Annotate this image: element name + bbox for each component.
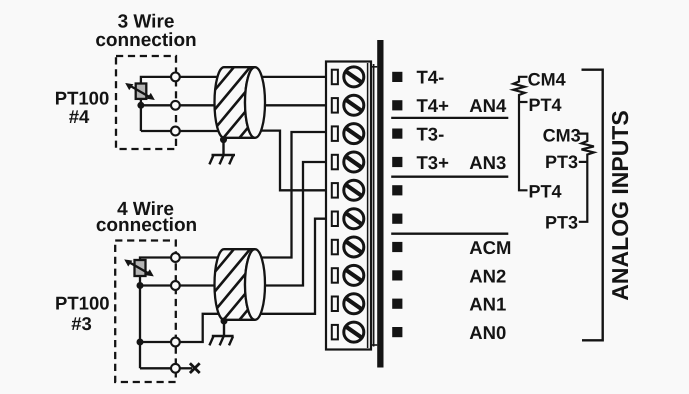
terminal circle 2 (box #3) bbox=[171, 281, 180, 290]
node shield drain dot cable 2 bbox=[221, 318, 228, 325]
svg-text:PT3: PT3 bbox=[545, 212, 578, 232]
wire circle3 to shield cable 1 bbox=[180, 130, 224, 132]
svg-text:T3-: T3- bbox=[417, 123, 445, 144]
pin square row7 bbox=[392, 242, 402, 252]
wire cable2 out to terminal row4 T3+ bbox=[253, 162, 327, 286]
svg-text:T4-: T4- bbox=[417, 67, 445, 88]
dashed sensor box PT100 #4 bbox=[116, 56, 176, 149]
mounting tick top bbox=[371, 66, 377, 68]
wire junction to circle 2 bbox=[141, 104, 171, 106]
terminal circle 3 (box #3) bbox=[171, 338, 180, 347]
node shield drain dot cable 1 bbox=[220, 136, 227, 143]
arrow through RTD #3 bbox=[128, 261, 151, 274]
svg-text:PT4: PT4 bbox=[529, 182, 562, 202]
wire bottom to circle 4 bbox=[140, 367, 170, 369]
bracket + resistor RTD4 equivalent bbox=[513, 77, 527, 191]
shielded cable 1 body bbox=[169, 62, 319, 145]
pin square row8 bbox=[392, 270, 402, 280]
mounting tick bottom bbox=[371, 344, 377, 346]
wire cable2 out to terminal row3 T3- bbox=[253, 132, 327, 258]
terminal 8 bbox=[332, 265, 364, 285]
pin square row4 bbox=[392, 157, 402, 167]
label PT100 #4 bbox=[55, 88, 110, 128]
wire junction to circle 3 bbox=[141, 130, 171, 132]
terminal circle 4 (box #3) bbox=[171, 364, 180, 373]
resistor RTD element PT100 #4 bbox=[136, 84, 147, 99]
svg-text:#4: #4 bbox=[69, 106, 90, 127]
terminal circle 1 (box #3) bbox=[171, 253, 180, 262]
wire circle1 to shield cable 1 bbox=[180, 76, 224, 78]
wire cable2 third lead to terminal row6 bbox=[253, 219, 327, 314]
svg-text:PT4: PT4 bbox=[529, 95, 562, 115]
wire junction2 to circle 3 bbox=[140, 341, 170, 343]
terminal 1 bbox=[332, 67, 364, 87]
title: 4 Wire connection bbox=[96, 199, 197, 236]
bracket + resistor RTD3 equivalent bbox=[579, 134, 594, 222]
terminal 3 bbox=[332, 124, 364, 144]
wire RTD3 top lead to circle 1 bbox=[140, 258, 170, 261]
label PT100 #3 bbox=[55, 293, 110, 335]
X no-connect mark bbox=[190, 363, 200, 373]
terminal 5 bbox=[332, 180, 364, 200]
svg-text:PT3: PT3 bbox=[545, 152, 578, 172]
title: 3 Wire connection bbox=[95, 12, 196, 51]
wire RTD4 bottom lead vertical bbox=[140, 99, 142, 131]
svg-text:ACM: ACM bbox=[469, 237, 511, 258]
separator line 1 bbox=[391, 117, 508, 119]
wire RTD3 bottom lead vertical bbox=[139, 276, 141, 368]
node junction dot RTD3 b bbox=[137, 339, 144, 346]
arrow through RTD #4 bbox=[129, 85, 152, 98]
pin square row10 bbox=[392, 327, 402, 337]
terminal 10 bbox=[332, 322, 364, 342]
pin square row5 bbox=[392, 185, 402, 195]
terminal block outer edge line bbox=[373, 64, 375, 347]
terminal block inner edge line bbox=[367, 63, 369, 348]
terminal block body bbox=[326, 62, 371, 350]
separator line 2 bbox=[391, 176, 508, 178]
svg-text:AN4: AN4 bbox=[469, 95, 507, 116]
analog inputs group bracket bbox=[582, 70, 603, 341]
svg-text:connection: connection bbox=[96, 215, 197, 236]
wire cable1 out to terminal row1 T4- bbox=[253, 76, 327, 78]
wire RTD4 top lead to terminal circle 1 bbox=[141, 77, 171, 84]
node junction dot RTD4 bbox=[137, 102, 144, 109]
ground symbol cable 1 bbox=[209, 140, 235, 165]
wire circle4 to X no-connect bbox=[180, 367, 192, 369]
node junction dot RTD3 a bbox=[137, 282, 144, 289]
svg-text:T4+: T4+ bbox=[417, 95, 450, 116]
dashed sensor box PT100 #3 bbox=[115, 241, 176, 383]
svg-text:AN3: AN3 bbox=[469, 152, 506, 173]
svg-text:PT100: PT100 bbox=[55, 293, 110, 314]
svg-text:CM4: CM4 bbox=[528, 69, 566, 89]
separator line 3 bbox=[391, 233, 508, 235]
svg-text:AN0: AN0 bbox=[469, 322, 506, 343]
wire cable1 third lead down to terminal row5 bbox=[253, 131, 327, 191]
channel labels right bbox=[528, 69, 581, 232]
terminal 4 bbox=[332, 152, 364, 172]
svg-text:CM3: CM3 bbox=[543, 125, 581, 145]
pin square row1 bbox=[392, 72, 402, 82]
wire circle3 up into shield cable 2 bbox=[180, 314, 222, 342]
svg-text:T3+: T3+ bbox=[417, 152, 450, 173]
ground symbol cable 2 bbox=[209, 321, 233, 345]
pin square row9 bbox=[392, 299, 402, 309]
terminal 6 bbox=[332, 209, 364, 229]
svg-text:#3: #3 bbox=[71, 313, 92, 334]
pin square row3 bbox=[392, 129, 402, 139]
terminal 2 bbox=[332, 95, 364, 115]
wire circle2 to shield cable 2 bbox=[180, 284, 224, 286]
module edge thick bar bbox=[377, 40, 383, 368]
terminal circle 1 (box #4) bbox=[171, 73, 180, 82]
pin labels bbox=[417, 67, 512, 343]
terminal 7 bbox=[332, 237, 364, 257]
svg-text:connection: connection bbox=[95, 30, 196, 51]
svg-text:AN1: AN1 bbox=[469, 294, 506, 315]
wire junction1 to circle 2 bbox=[140, 284, 170, 286]
pin square row6 bbox=[392, 214, 402, 224]
wire circle1 to shield cable 2 bbox=[180, 256, 224, 258]
terminal circle 3 (box #4) bbox=[171, 127, 180, 136]
svg-text:AN2: AN2 bbox=[469, 265, 506, 286]
terminal circle 2 (box #4) bbox=[171, 101, 180, 110]
pin square row2 bbox=[392, 100, 402, 110]
svg-text:ANALOG INPUTS: ANALOG INPUTS bbox=[607, 110, 633, 300]
terminal 9 bbox=[332, 294, 364, 314]
wire circle2 to shield cable 1 bbox=[180, 104, 224, 106]
shielded cable 2 body bbox=[169, 244, 319, 327]
resistor RTD element PT100 #3 bbox=[135, 260, 146, 276]
wire cable1 out to terminal row2 T4+ bbox=[253, 104, 327, 106]
